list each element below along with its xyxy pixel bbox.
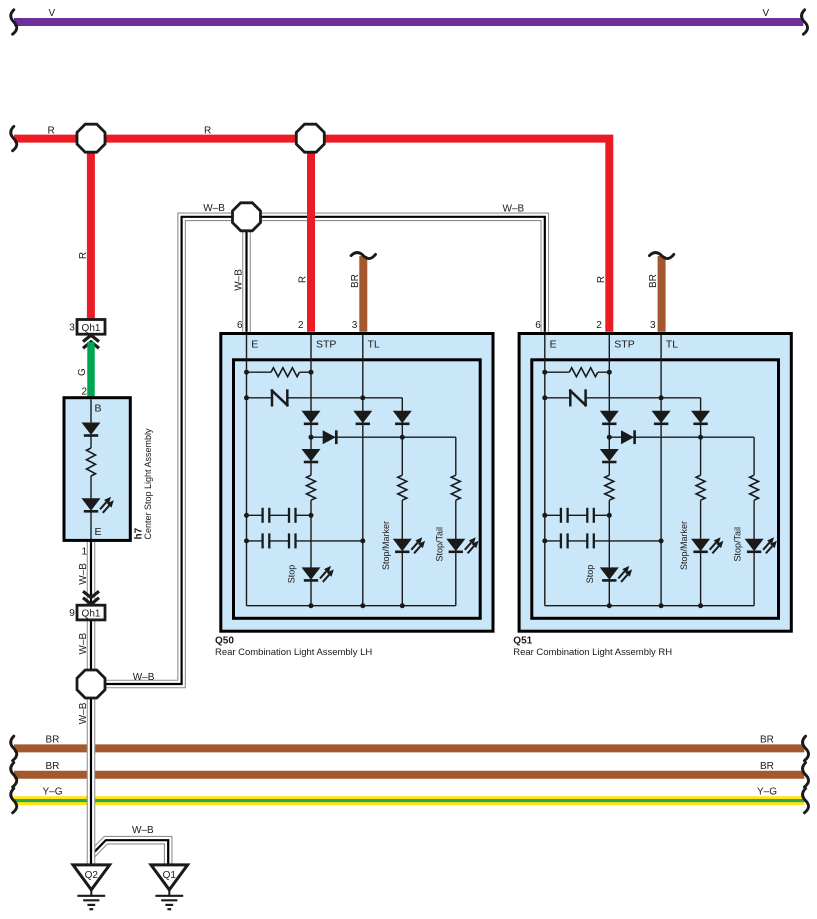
Q51 thermistor N element row — [542, 391, 700, 406]
svg-text:6: 6 — [535, 320, 541, 331]
Q51 diode 2 (STP column) — [600, 449, 619, 461]
svg-text:R: R — [204, 126, 211, 137]
svg-text:1: 1 — [81, 547, 87, 558]
Q50 inner board outline — [234, 360, 481, 619]
Q50 resistor (top, E to STP) — [244, 368, 314, 377]
Q50 diode (horizontal, STP junction row) — [309, 430, 456, 444]
svg-text:Y–G: Y–G — [757, 786, 777, 797]
Q51 pin labels E / STP / TL — [550, 338, 679, 350]
svg-text:R: R — [596, 276, 607, 283]
svg-text:BR: BR — [760, 735, 774, 746]
wire break mark (Y-G bus left) — [11, 788, 17, 812]
svg-text:Stop/Tail: Stop/Tail — [733, 527, 743, 562]
svg-text:Qh1: Qh1 — [82, 609, 101, 620]
wire BR bus 2 — [14, 771, 804, 779]
Q50 diode (STP column) — [302, 411, 321, 423]
svg-text:Y–G: Y–G — [43, 786, 63, 797]
svg-text:W–B: W–B — [203, 203, 225, 214]
Q50 diode (TL column) — [353, 411, 372, 423]
svg-text:BR: BR — [46, 735, 60, 746]
wire break mark (V bus left) — [11, 10, 17, 34]
Q51 diode (marker column) — [691, 398, 710, 475]
svg-text:R: R — [298, 276, 309, 283]
svg-text:Q2: Q2 — [85, 870, 99, 881]
wire W-B: junction to left drop down to lower junction — [105, 217, 247, 684]
Q50 thermistor N element row — [244, 391, 402, 406]
svg-text:BR: BR — [46, 761, 60, 772]
Q51 inner board outline — [532, 360, 779, 619]
svg-text:W–B: W–B — [503, 204, 525, 215]
svg-text:V: V — [49, 8, 56, 19]
Q50 bottom rail junction dots — [309, 603, 405, 608]
svg-text:Center Stop Light Assembly: Center Stop Light Assembly — [143, 428, 153, 540]
svg-text:3: 3 — [650, 320, 656, 331]
svg-text:TL: TL — [666, 338, 678, 350]
Q51 capacitors row 1 — [542, 508, 612, 523]
svg-text:Stop/Marker: Stop/Marker — [381, 521, 391, 570]
h7 internal wire — [90, 399, 92, 539]
Q50 LED Stop (STP column) — [302, 567, 321, 579]
wire break mark (BR bus 2 left) — [11, 763, 17, 787]
svg-text:R: R — [78, 252, 89, 259]
svg-text:Rear Combination Light Assembl: Rear Combination Light Assembly LH — [215, 647, 372, 658]
Q51 LED stop/marker — [691, 537, 723, 605]
Q51 resistor (stop/tail column) — [750, 437, 759, 541]
h7 resistor — [87, 448, 96, 476]
node: W-B lower junction — [77, 670, 105, 698]
h7 diode — [82, 423, 101, 435]
wire break mark (Y-G bus right) — [803, 788, 809, 812]
svg-text:W–B: W–B — [133, 672, 155, 683]
svg-text:B: B — [95, 402, 102, 414]
Q51 wire: STP column — [608, 335, 610, 606]
svg-text:Stop/Tail: Stop/Tail — [434, 527, 444, 562]
svg-text:BR: BR — [760, 761, 774, 772]
svg-text:BR: BR — [648, 274, 659, 288]
svg-text:E: E — [251, 338, 258, 350]
svg-text:R: R — [48, 126, 55, 137]
svg-text:W–B: W–B — [78, 633, 89, 655]
svg-text:Stop: Stop — [585, 565, 595, 584]
Q50 resistor (STP column) — [307, 475, 316, 500]
node: R bus / Q50 tap — [296, 124, 324, 152]
node: W-B bus junction — [233, 203, 261, 231]
svg-text:2: 2 — [596, 320, 602, 331]
Q50 diode (marker column) — [393, 398, 412, 475]
Q51 LED Stop (STP column) — [600, 567, 619, 579]
connector Qh1 (upper) — [77, 320, 105, 335]
Q50 capacitors row 2 — [244, 533, 365, 548]
wire W-B: junction down to Q50 pin 6 — [242, 217, 251, 332]
wire V bus (purple) — [14, 18, 803, 26]
svg-text:W–B: W–B — [78, 563, 89, 585]
Q50 wire: TL column — [362, 335, 364, 606]
wire G (green) — [87, 342, 95, 399]
Q50 capacitors row 1 — [244, 508, 314, 523]
wire W-B: lower junction up to connector Qh1 — [87, 621, 96, 677]
svg-text:Stop: Stop — [287, 565, 297, 584]
Q50 LED stop/tail — [446, 537, 478, 605]
Q51 resistor (stop/marker column) — [696, 475, 705, 541]
ground Q1 — [151, 865, 188, 909]
Q50 resistor (stop/marker column) — [398, 475, 407, 541]
wire BR stub to Q51 TL — [658, 256, 666, 332]
Q51 title — [513, 635, 672, 658]
Q51 resistor (STP column) — [605, 475, 614, 500]
wire break mark (BR bus 1 left) — [11, 736, 17, 760]
wire W-B: h7 pin 1 down to connector Qh1 — [87, 540, 96, 606]
svg-text:3: 3 — [352, 320, 358, 331]
svg-text:Qh1: Qh1 — [82, 323, 101, 334]
wire W-B: lower junction down to ground Q2 — [87, 691, 96, 865]
svg-text:E: E — [95, 526, 102, 538]
svg-text:Q50: Q50 — [215, 635, 234, 646]
wire BR stub to Q50 TL — [359, 256, 367, 332]
svg-text:Q51: Q51 — [513, 635, 532, 646]
Q50 wire: STP column — [310, 335, 312, 606]
connector mate chevrons (down) — [83, 591, 99, 604]
h7 LED — [82, 498, 101, 510]
wire break mark (BR bus 2 right) — [803, 763, 809, 787]
Q51 wire: E column — [544, 335, 546, 606]
Q51 diode (horizontal, STP junction row) — [607, 430, 754, 444]
Q50 diode 2 (STP column) — [302, 449, 321, 461]
svg-text:G: G — [77, 368, 88, 376]
h7 label — [133, 428, 153, 540]
Q51 LED stop/tail — [745, 537, 777, 605]
svg-text:TL: TL — [368, 338, 380, 350]
wire break mark (R bus left) — [11, 126, 17, 150]
wire R drop to connector Qh1 (center stop light) — [87, 139, 95, 321]
ground Q2 — [73, 865, 110, 909]
svg-text:W–B: W–B — [78, 702, 89, 724]
wire W-B: branch to ground Q1 — [91, 840, 168, 865]
svg-text:Q1: Q1 — [163, 870, 177, 881]
svg-text:2: 2 — [298, 320, 304, 331]
svg-text:6: 6 — [237, 320, 243, 331]
svg-text:W–B: W–B — [234, 269, 245, 291]
Q50 wire: E column — [246, 335, 248, 606]
svg-text:V: V — [763, 8, 770, 19]
svg-text:3: 3 — [69, 322, 75, 333]
Q50 Rear Combination Light Assembly LH: outer case — [221, 334, 493, 632]
Q51 wire: bottom rail — [545, 605, 754, 607]
wire R bus (red) with drop to Q51 STP — [14, 139, 609, 332]
Q51 diode (STP column) — [600, 411, 619, 423]
Q50 resistor (stop/tail column) — [451, 437, 460, 541]
wire R drop to Q50 STP — [307, 139, 315, 332]
Q50 title — [215, 635, 372, 658]
wire break mark (BR bus 1 right) — [803, 736, 809, 760]
svg-text:STP: STP — [316, 338, 336, 350]
Q50 LED stop/marker — [393, 537, 425, 605]
wire W-B: junction right to Q51 pin 6 — [247, 217, 545, 332]
Q51 diode (TL column) — [652, 411, 671, 423]
Q51 resistor (top, E to STP) — [542, 368, 612, 377]
svg-text:BR: BR — [350, 274, 361, 288]
svg-text:9: 9 — [69, 608, 75, 619]
svg-text:STP: STP — [614, 338, 634, 350]
node: R bus / center stop light tap — [77, 124, 105, 152]
Q50 wire: bottom rail — [247, 605, 456, 607]
wire break mark (Q51 BR stub) — [649, 253, 673, 259]
Q51 Rear Combination Light Assembly RH: outer case — [519, 334, 791, 632]
svg-text:W–B: W–B — [132, 825, 154, 836]
svg-text:E: E — [550, 338, 557, 350]
Q51 capacitors row 2 — [542, 533, 663, 548]
Q50 pin labels E / STP / TL — [251, 338, 380, 350]
Q51 bottom rail junction dots — [607, 603, 703, 608]
wire BR bus 1 — [14, 744, 804, 752]
svg-text:2: 2 — [81, 386, 87, 397]
h7 Center Stop Light Assembly: case — [64, 398, 130, 541]
connector mate chevrons (up) — [83, 335, 99, 348]
connector Qh1 (lower) — [77, 605, 105, 620]
wire Y-G bus — [14, 796, 804, 805]
Q51 wire: TL column — [660, 335, 662, 606]
svg-text:Rear Combination Light Assembl: Rear Combination Light Assembly RH — [513, 647, 672, 658]
wire break mark (V bus right) — [802, 10, 808, 34]
wire break mark (Q50 BR stub) — [351, 253, 375, 259]
svg-text:Stop/Marker: Stop/Marker — [679, 521, 689, 570]
